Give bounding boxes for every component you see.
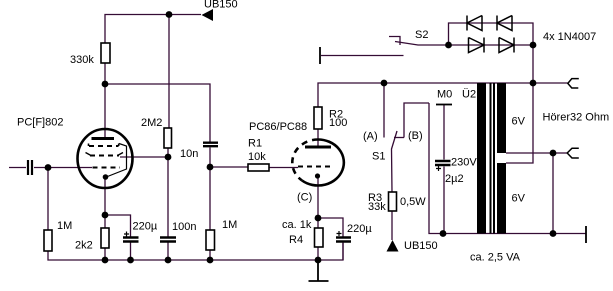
svg-text:10n: 10n (180, 148, 198, 160)
svg-text:10k: 10k (248, 151, 266, 163)
svg-text:4x 1N4007: 4x 1N4007 (543, 31, 596, 43)
svg-text:33k: 33k (368, 201, 386, 213)
svg-text:S2: S2 (415, 29, 428, 41)
svg-text:1M: 1M (222, 219, 237, 231)
svg-text:(B): (B) (408, 130, 423, 142)
svg-text:330k: 330k (70, 54, 94, 66)
svg-text:1M: 1M (57, 220, 72, 232)
svg-text:(C): (C) (297, 192, 312, 204)
svg-text:R4: R4 (289, 234, 303, 246)
svg-text:(A): (A) (363, 131, 378, 143)
svg-text:UB150: UB150 (204, 0, 238, 11)
svg-text:PC86/PC88: PC86/PC88 (249, 121, 307, 133)
svg-text:230V: 230V (451, 157, 477, 169)
svg-text:PC[F]802: PC[F]802 (17, 117, 63, 129)
svg-text:S1: S1 (372, 151, 385, 163)
svg-text:6V: 6V (512, 193, 526, 205)
svg-text:2µ2: 2µ2 (445, 173, 464, 185)
svg-text:Hörer32 Ohm: Hörer32 Ohm (543, 112, 610, 124)
svg-text:ca. 1k: ca. 1k (282, 219, 312, 231)
svg-text:220µ: 220µ (347, 223, 372, 235)
svg-text:Ü2: Ü2 (462, 89, 476, 101)
svg-text:R1: R1 (248, 138, 262, 150)
svg-text:0,5W: 0,5W (400, 196, 426, 208)
svg-text:M0: M0 (437, 89, 452, 101)
svg-text:220µ: 220µ (133, 221, 158, 233)
svg-text:ca. 2,5 VA: ca. 2,5 VA (470, 252, 521, 264)
svg-text:UB150: UB150 (404, 240, 438, 252)
svg-text:100: 100 (329, 117, 347, 129)
svg-text:100n: 100n (172, 221, 196, 233)
svg-text:6V: 6V (512, 116, 526, 128)
svg-text:2k2: 2k2 (75, 240, 93, 252)
svg-text:2M2: 2M2 (141, 117, 162, 129)
